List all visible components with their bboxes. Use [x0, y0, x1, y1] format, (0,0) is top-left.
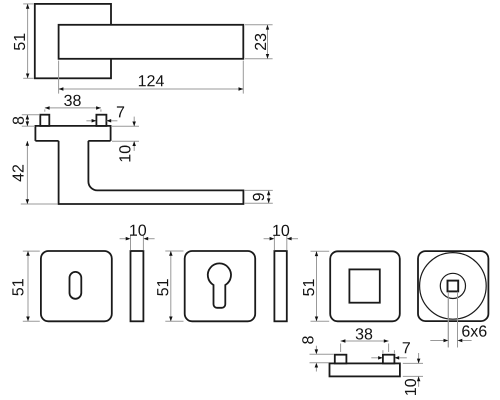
dimension 51 (rosette 2)	[157, 251, 183, 321]
rosette 4 blind rose	[418, 251, 488, 321]
dimension 51 (rosette 3)	[303, 251, 329, 321]
dimension 6x6	[430, 325, 486, 342]
front view lever outline	[59, 141, 244, 204]
dimension 8 (bottom view)	[302, 336, 334, 371]
bottom view left nub	[335, 355, 347, 364]
side strip 1	[131, 251, 144, 321]
side strip 2	[274, 251, 286, 321]
front view rose plate	[35, 126, 110, 141]
bottom view right nub	[383, 355, 395, 364]
front view left screw nub	[40, 115, 49, 126]
dimension 38 (bottom view)	[341, 328, 389, 352]
redraw leaders inside square gap	[448, 292, 457, 348]
dimension 42 (front view)	[12, 141, 57, 204]
bottom view rose plate	[330, 363, 400, 376]
large circle	[420, 253, 487, 320]
leader lines 6x6	[448, 292, 457, 348]
dimension 7 (front view)	[86, 106, 124, 122]
dimension 124 (top view)	[59, 61, 244, 94]
dimension 10 (bottom view)	[403, 353, 423, 395]
keyhole slot	[70, 272, 82, 299]
dimension 23 (top view)	[245, 25, 273, 59]
top view rose square	[35, 4, 111, 78]
dimension 51 (top view)	[14, 4, 34, 78]
front view right screw nub	[96, 115, 106, 126]
square spindle hole	[349, 269, 379, 302]
top view lever bar	[59, 25, 244, 59]
rosette 1 keyhole escutcheon	[41, 251, 112, 321]
dimension 10 rose thickness (front view)	[112, 117, 139, 162]
dimension 38 (front view)	[45, 95, 101, 112]
dimension 8 (front view)	[13, 115, 40, 127]
dimension 10 (strip 1)	[120, 225, 155, 251]
small circle	[440, 273, 465, 298]
dimension 10 (strip 2)	[264, 225, 298, 251]
dimension 9 (front view lever thickness)	[245, 190, 273, 203]
euro profile cylinder hole	[208, 263, 231, 307]
rosette 3 square-hole escutcheon	[330, 251, 400, 321]
small square hole 6x6	[448, 281, 459, 292]
rosette 2 cylinder escutcheon	[185, 251, 256, 321]
dimension 51 (rosette 1)	[12, 251, 39, 321]
dimension 7 (bottom view)	[371, 342, 410, 359]
